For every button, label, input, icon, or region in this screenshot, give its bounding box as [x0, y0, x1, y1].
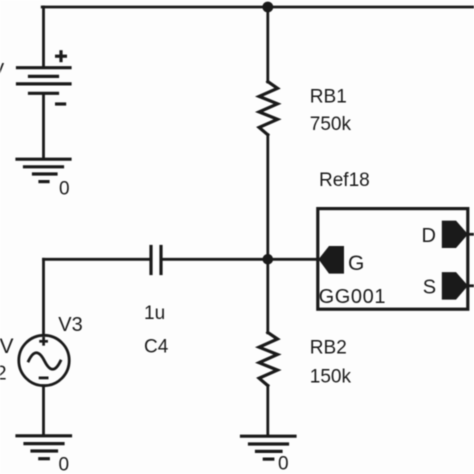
ground under battery: [17, 159, 70, 181]
svg-text:1u: 1u: [144, 303, 165, 324]
value 1u: [144, 303, 165, 324]
svg-text:V3: V3: [58, 314, 82, 336]
V3 plus mark: [41, 338, 47, 344]
wire node to RB2 vertical: [266, 259, 269, 333]
svg-text:2: 2: [0, 363, 7, 385]
svg-text:D: D: [422, 225, 436, 247]
pin letter S: [423, 277, 436, 299]
pin letter D: [422, 225, 436, 247]
net label 0 battery ground: [59, 179, 70, 200]
svg-text:0: 0: [59, 455, 70, 474]
svg-text:V: V: [0, 335, 14, 358]
resistor RB2: [259, 332, 277, 385]
resistor RB1: [259, 82, 277, 135]
label GG001: [319, 286, 386, 308]
pin D arrow: [442, 221, 468, 248]
wire node to G pin: [268, 258, 319, 261]
svg-text:GG001: GG001: [319, 286, 386, 308]
svg-text:RB2: RB2: [310, 338, 347, 359]
label RB1: [310, 86, 347, 107]
wire S pin stub: [467, 284, 474, 287]
svg-text:V: V: [0, 61, 5, 82]
label V3: [58, 314, 82, 336]
svg-text:750k: 750k: [310, 114, 352, 135]
battery minus mark: [57, 102, 65, 105]
wire capacitor to node: [163, 258, 268, 261]
value 750k: [310, 114, 352, 135]
pin G arrow: [319, 246, 345, 274]
part U1 Ref18 box: [318, 209, 468, 310]
capacitor C4: [151, 247, 161, 274]
svg-text:C4: C4: [144, 336, 169, 357]
label Ref18: [319, 170, 370, 191]
wire battery bottom vertical: [42, 95, 45, 158]
wire V3 bottom vertical: [42, 386, 45, 435]
wire battery top vertical: [42, 7, 45, 67]
net label 0 RB2 ground: [278, 454, 289, 474]
svg-text:S: S: [423, 277, 436, 299]
label RB2: [310, 338, 347, 359]
wire top horizontal bus: [42, 6, 474, 9]
svg-text:150k: 150k: [310, 366, 352, 387]
junction dot top node: [262, 2, 273, 13]
label V source (clipped at edge): [0, 335, 14, 358]
sine wave symbol: [29, 353, 61, 370]
net label 0 V3 ground: [59, 455, 70, 474]
svg-text:G: G: [348, 252, 364, 275]
wire RB1 bottom to node: [266, 135, 269, 259]
wire RB1 top vertical: [266, 7, 269, 82]
battery plus mark: [57, 52, 66, 61]
battery V (DC source): [18, 68, 71, 94]
pin letter G: [348, 252, 364, 275]
wire RB2 bottom vertical: [266, 386, 269, 435]
wire V3 top vertical: [42, 259, 45, 335]
wire node horizontal left segment: [44, 258, 150, 261]
svg-text:Ref18: Ref18: [319, 170, 370, 191]
value 150k: [310, 366, 352, 387]
svg-text:0: 0: [278, 454, 289, 474]
pin S arrow: [442, 272, 468, 300]
label V battery (clipped at edge): [0, 61, 5, 82]
junction dot middle node: [263, 254, 274, 265]
V3 minus mark: [40, 376, 47, 379]
sine source V3 circle: [19, 335, 69, 385]
ground under V3: [17, 436, 71, 459]
ground under RB2: [242, 436, 296, 459]
svg-text:RB1: RB1: [310, 86, 347, 107]
wire D pin stub: [467, 233, 474, 236]
label 2 source (clipped at edge): [0, 363, 7, 385]
svg-text:0: 0: [59, 179, 70, 200]
label C4: [144, 336, 169, 357]
